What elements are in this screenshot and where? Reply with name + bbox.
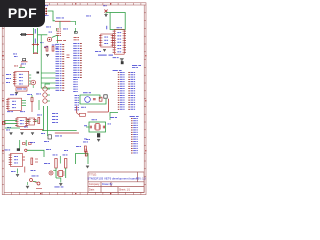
- svg-text:Drawn By:: Drawn By:: [102, 183, 113, 186]
- svg-text:STM32F103 VET6 development boa: STM32F103 VET6 development board: [87, 177, 137, 181]
- svg-text:REV: 1.0: REV: 1.0: [136, 177, 146, 180]
- svg-text:Company:: Company:: [89, 183, 100, 186]
- svg-text:Date:: Date:: [89, 188, 95, 191]
- svg-text:Sheet: 1/1: Sheet: 1/1: [119, 188, 131, 191]
